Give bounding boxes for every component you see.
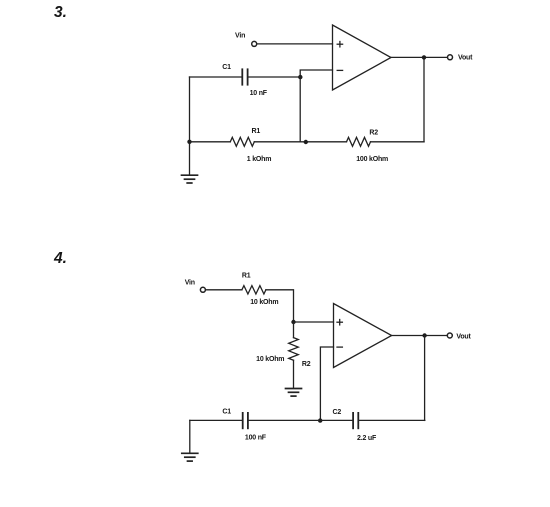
wire inverting node down to R row <box>299 77 301 142</box>
svg-text:100 kOhm: 100 kOhm <box>356 156 388 163</box>
capacitor C1 <box>242 69 247 84</box>
svg-text:4.: 4. <box>53 250 67 267</box>
junction dot output node (circuit 4) <box>422 333 426 337</box>
capacitor C2 <box>353 413 358 428</box>
op-amp U2 <box>334 304 392 368</box>
wire R1 to R2 segment <box>254 141 346 143</box>
junction dot output node <box>422 55 426 59</box>
junction dot divider node <box>291 320 295 324</box>
terminal Vout (circuit 4) <box>447 333 452 338</box>
svg-text:Vout: Vout <box>456 333 471 340</box>
wire Vin to op-amp + input <box>257 43 332 45</box>
op-amp U1 <box>333 25 392 90</box>
wire feedback vertical (circuit 4) <box>424 336 426 421</box>
wire R1 to divider node <box>266 290 294 322</box>
svg-text:C1: C1 <box>222 409 231 416</box>
wire Vin to R1 <box>206 289 242 291</box>
junction dot left rail / R1 row <box>187 140 191 144</box>
wire feedback vertical <box>423 57 425 141</box>
svg-text:R2: R2 <box>369 129 378 136</box>
wire op-amp output (circuit 4) <box>392 335 447 337</box>
svg-text:Vin: Vin <box>235 33 245 40</box>
terminal Vout (circuit 3) <box>448 55 453 60</box>
wire C row right segment <box>359 419 425 421</box>
ground (circuit 3) <box>182 175 198 183</box>
svg-text:10 kOhm: 10 kOhm <box>256 356 284 363</box>
junction dot C1 row / inverting input <box>298 75 302 79</box>
wire R2 to ground <box>293 360 295 388</box>
svg-text:R2: R2 <box>302 361 311 368</box>
wire C row left segment <box>190 419 242 421</box>
wire C row middle segment <box>249 419 352 421</box>
wire C1 row right segment <box>249 76 301 78</box>
wire op-amp output <box>391 56 447 58</box>
wire R2 row right lead <box>371 141 425 143</box>
resistor R2 (circuit 4, vertical) <box>289 338 299 361</box>
svg-text:R1: R1 <box>242 272 251 279</box>
junction dot R1/R2 row <box>304 140 308 144</box>
wire op-amp - input down to C row <box>320 347 333 420</box>
svg-text:Vin: Vin <box>185 279 195 286</box>
resistor R1 <box>230 137 254 146</box>
junction dot C1/C2 row <box>318 418 322 422</box>
terminal Vin (circuit 4) <box>200 287 205 292</box>
svg-text:10 nF: 10 nF <box>250 90 268 97</box>
wire left vertical to ground <box>189 77 191 175</box>
wire op-amp - input to node <box>300 70 332 77</box>
resistor R2 <box>347 137 371 146</box>
svg-text:C2: C2 <box>333 409 342 416</box>
svg-text:10 kOhm: 10 kOhm <box>250 299 278 306</box>
ground (circuit 4, input coupling) <box>182 453 198 461</box>
svg-text:R1: R1 <box>252 128 261 135</box>
terminal Vin (circuit 3) <box>252 41 257 46</box>
ground (circuit 4, divider) <box>286 389 302 397</box>
capacitor C1 (circuit 4) <box>243 413 248 428</box>
svg-text:2.2 uF: 2.2 uF <box>357 435 377 442</box>
wire node to op-amp + input <box>294 321 334 323</box>
wire left ground drop (circuit 4) <box>189 420 191 453</box>
resistor R1 (circuit 4) <box>242 286 266 294</box>
svg-text:3.: 3. <box>54 4 67 21</box>
svg-text:C1: C1 <box>222 64 231 71</box>
wire node to R2 top <box>293 322 295 338</box>
svg-text:1 kOhm: 1 kOhm <box>247 156 271 163</box>
svg-text:Vout: Vout <box>458 55 473 62</box>
wire C1 row left segment <box>190 76 242 78</box>
svg-text:100 nF: 100 nF <box>245 434 267 441</box>
wire R1 row left lead <box>190 141 231 143</box>
